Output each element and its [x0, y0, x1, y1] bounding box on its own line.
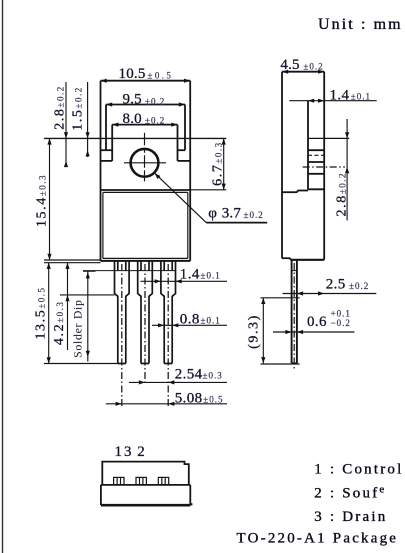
svg-text:2.54: 2.54 [175, 367, 203, 383]
page left border [2, 0, 4, 553]
1.4 dim line (front) [141, 280, 228, 282]
svg-text:±0.1: ±0.1 [201, 271, 221, 281]
tab right edge [189, 81, 191, 261]
svg-text:1.4: 1.4 [330, 87, 350, 103]
tab left edge [100, 81, 102, 261]
svg-text:3.7: 3.7 [222, 206, 242, 222]
svg-text:6.7±0.3: 6.7±0.3 [211, 141, 226, 186]
13.5 dim [48, 263, 50, 364]
9.5 step line [106, 104, 185, 106]
svg-text:1 : Control: 1 : Control [314, 462, 403, 478]
tab top edge / 10.5 dim line [101, 80, 191, 82]
svg-text:1.5±0.2: 1.5±0.2 [71, 86, 86, 131]
svg-text:2.5: 2.5 [326, 277, 346, 293]
notch lines [308, 149, 324, 151]
svg-text:±0.5: ±0.5 [148, 71, 174, 81]
svg-text:2 : Soufe: 2 : Soufe [314, 484, 386, 502]
tab inner line [307, 101, 309, 190]
left edge [281, 72, 283, 259]
0.8 dim line [152, 324, 227, 326]
side lead [291, 260, 293, 364]
svg-text:3 : Drain: 3 : Drain [314, 509, 387, 525]
2.5 dim [283, 293, 377, 295]
6.7 dim [223, 138, 225, 189]
top edge / 4.5 dim [282, 71, 324, 73]
svg-text:±0.5: ±0.5 [203, 394, 223, 404]
right edge [323, 72, 325, 260]
svg-text:Solder Dip: Solder Dip [71, 299, 85, 357]
svg-text:4.5: 4.5 [280, 57, 299, 73]
8.0 step line [112, 124, 177, 126]
10.5 dim arrows [44, 137, 226, 139]
body top line [101, 189, 191, 191]
svg-text:2.8±0.2: 2.8±0.2 [335, 172, 350, 217]
9.3 dim [262, 298, 264, 364]
svg-text:15.4±0.3: 15.4±0.3 [35, 174, 50, 227]
lead 3 [161, 261, 176, 364]
svg-text:2: 2 [137, 444, 145, 460]
svg-text:5.08: 5.08 [175, 390, 203, 406]
2.8 dim (side) [346, 119, 348, 220]
lead 2 [138, 261, 153, 364]
svg-text:Unit : mm: Unit : mm [318, 16, 403, 33]
svg-text:±0.2: ±0.2 [145, 116, 165, 126]
2.54 dim line [129, 381, 227, 383]
svg-text:0.6: 0.6 [307, 314, 327, 330]
svg-text:1.4: 1.4 [180, 267, 200, 283]
svg-text:8.0: 8.0 [123, 111, 142, 127]
4.2 dim [67, 263, 69, 350]
0.6 dim [273, 331, 355, 333]
step at body top [308, 188, 324, 190]
lead 1 [115, 261, 130, 364]
notch top line side [308, 137, 349, 139]
svg-text:φ: φ [208, 206, 217, 222]
lead centerlines (dash-dot) [122, 264, 168, 407]
hidden hole line (dashed) [308, 154, 324, 156]
5.08 dim line [106, 403, 227, 405]
svg-text:13.5±0.5: 13.5±0.5 [33, 286, 48, 339]
svg-text:TO-220-A1 Package: TO-220-A1 Package [237, 531, 399, 547]
hole centerline side [303, 166, 345, 168]
svg-text:4.2±0.3: 4.2±0.3 [52, 301, 67, 346]
side dims [261, 101, 377, 364]
svg-text:±0.2: ±0.2 [244, 210, 264, 220]
svg-text:2.8±0.2: 2.8±0.2 [53, 85, 68, 130]
lead centerline side [293, 263, 295, 371]
solder dip dim [87, 271, 89, 361]
notch shoulders [101, 149, 113, 151]
svg-text:13: 13 [115, 444, 134, 460]
svg-text:±0.2: ±0.2 [303, 61, 323, 71]
body bottom edge [101, 260, 191, 262]
svg-text:±0.3: ±0.3 [203, 371, 223, 381]
svg-text:10.5: 10.5 [119, 66, 146, 82]
svg-text:+0.1: +0.1 [331, 309, 351, 319]
svg-text:±0.1: ±0.1 [351, 91, 371, 101]
15.4 dim [49, 138, 51, 260]
left dims 2.8 / 1.5 [65, 82, 67, 165]
svg-text:(9.3): (9.3) [247, 314, 262, 349]
lead bend line [83, 270, 176, 272]
svg-text:±0.2: ±0.2 [349, 281, 369, 291]
mounting hole [131, 149, 159, 177]
front view leads [115, 261, 176, 364]
hole leader [155, 173, 207, 223]
body bottom [282, 257, 290, 259]
hole crosshair [124, 133, 166, 182]
1.4 dim (side) [289, 100, 376, 102]
svg-text:9.5: 9.5 [123, 92, 142, 108]
arrowheads front [47, 79, 226, 406]
svg-text:0.8: 0.8 [180, 312, 200, 328]
body inner rectangle [103, 192, 188, 258]
svg-text:±0.1: ±0.1 [201, 316, 221, 326]
svg-text:±0.2: ±0.2 [145, 97, 165, 107]
svg-text:−0.2: −0.2 [331, 318, 351, 328]
